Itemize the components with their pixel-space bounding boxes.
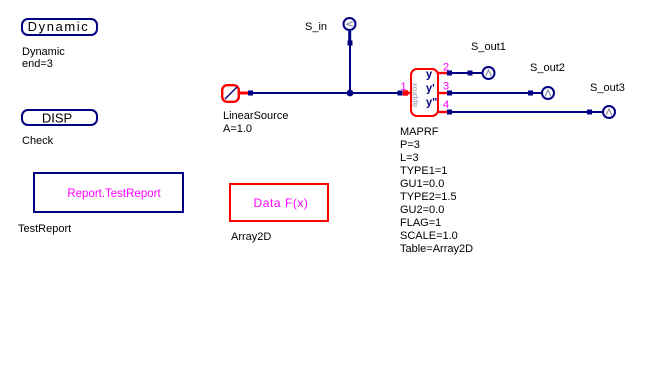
svg-text:TYPE1=1: TYPE1=1 bbox=[400, 165, 447, 177]
svg-text:Array2D: Array2D bbox=[231, 231, 271, 243]
svg-text:Dynamic: Dynamic bbox=[22, 46, 65, 58]
svg-text:y: y bbox=[426, 69, 433, 81]
svg-text:Dynamic: Dynamic bbox=[28, 19, 90, 34]
svg-text:S_out3: S_out3 bbox=[590, 82, 625, 94]
svg-text:DISP: DISP bbox=[42, 110, 72, 125]
svg-text:Check: Check bbox=[22, 135, 54, 147]
svg-text:FLAG=1: FLAG=1 bbox=[400, 217, 441, 229]
svg-text:TestReport: TestReport bbox=[18, 223, 71, 235]
svg-text:approx: approx bbox=[410, 83, 419, 107]
svg-text:GU2=0.0: GU2=0.0 bbox=[400, 204, 444, 216]
svg-text:MAPRF: MAPRF bbox=[400, 126, 439, 138]
svg-text:end=3: end=3 bbox=[22, 58, 53, 70]
svg-text:Data F(x): Data F(x) bbox=[254, 196, 309, 210]
svg-text:4: 4 bbox=[443, 99, 449, 111]
svg-text:y': y' bbox=[426, 83, 435, 95]
svg-text:L=3: L=3 bbox=[400, 152, 419, 164]
svg-text:Report.TestReport: Report.TestReport bbox=[67, 188, 161, 200]
svg-text:S_out2: S_out2 bbox=[530, 62, 565, 74]
svg-text:S_out1: S_out1 bbox=[471, 41, 506, 53]
svg-text:LinearSource: LinearSource bbox=[223, 110, 288, 122]
svg-text:SCALE=1.0: SCALE=1.0 bbox=[400, 230, 458, 242]
svg-text:P=3: P=3 bbox=[400, 139, 420, 151]
svg-text:y": y" bbox=[426, 97, 437, 109]
svg-text:A=1.0: A=1.0 bbox=[223, 123, 252, 135]
svg-text:1: 1 bbox=[400, 81, 406, 93]
svg-text:S_in: S_in bbox=[305, 21, 327, 33]
svg-text:Table=Array2D: Table=Array2D bbox=[400, 243, 473, 255]
svg-text:GU1=0.0: GU1=0.0 bbox=[400, 178, 444, 190]
svg-text:TYPE2=1.5: TYPE2=1.5 bbox=[400, 191, 457, 203]
